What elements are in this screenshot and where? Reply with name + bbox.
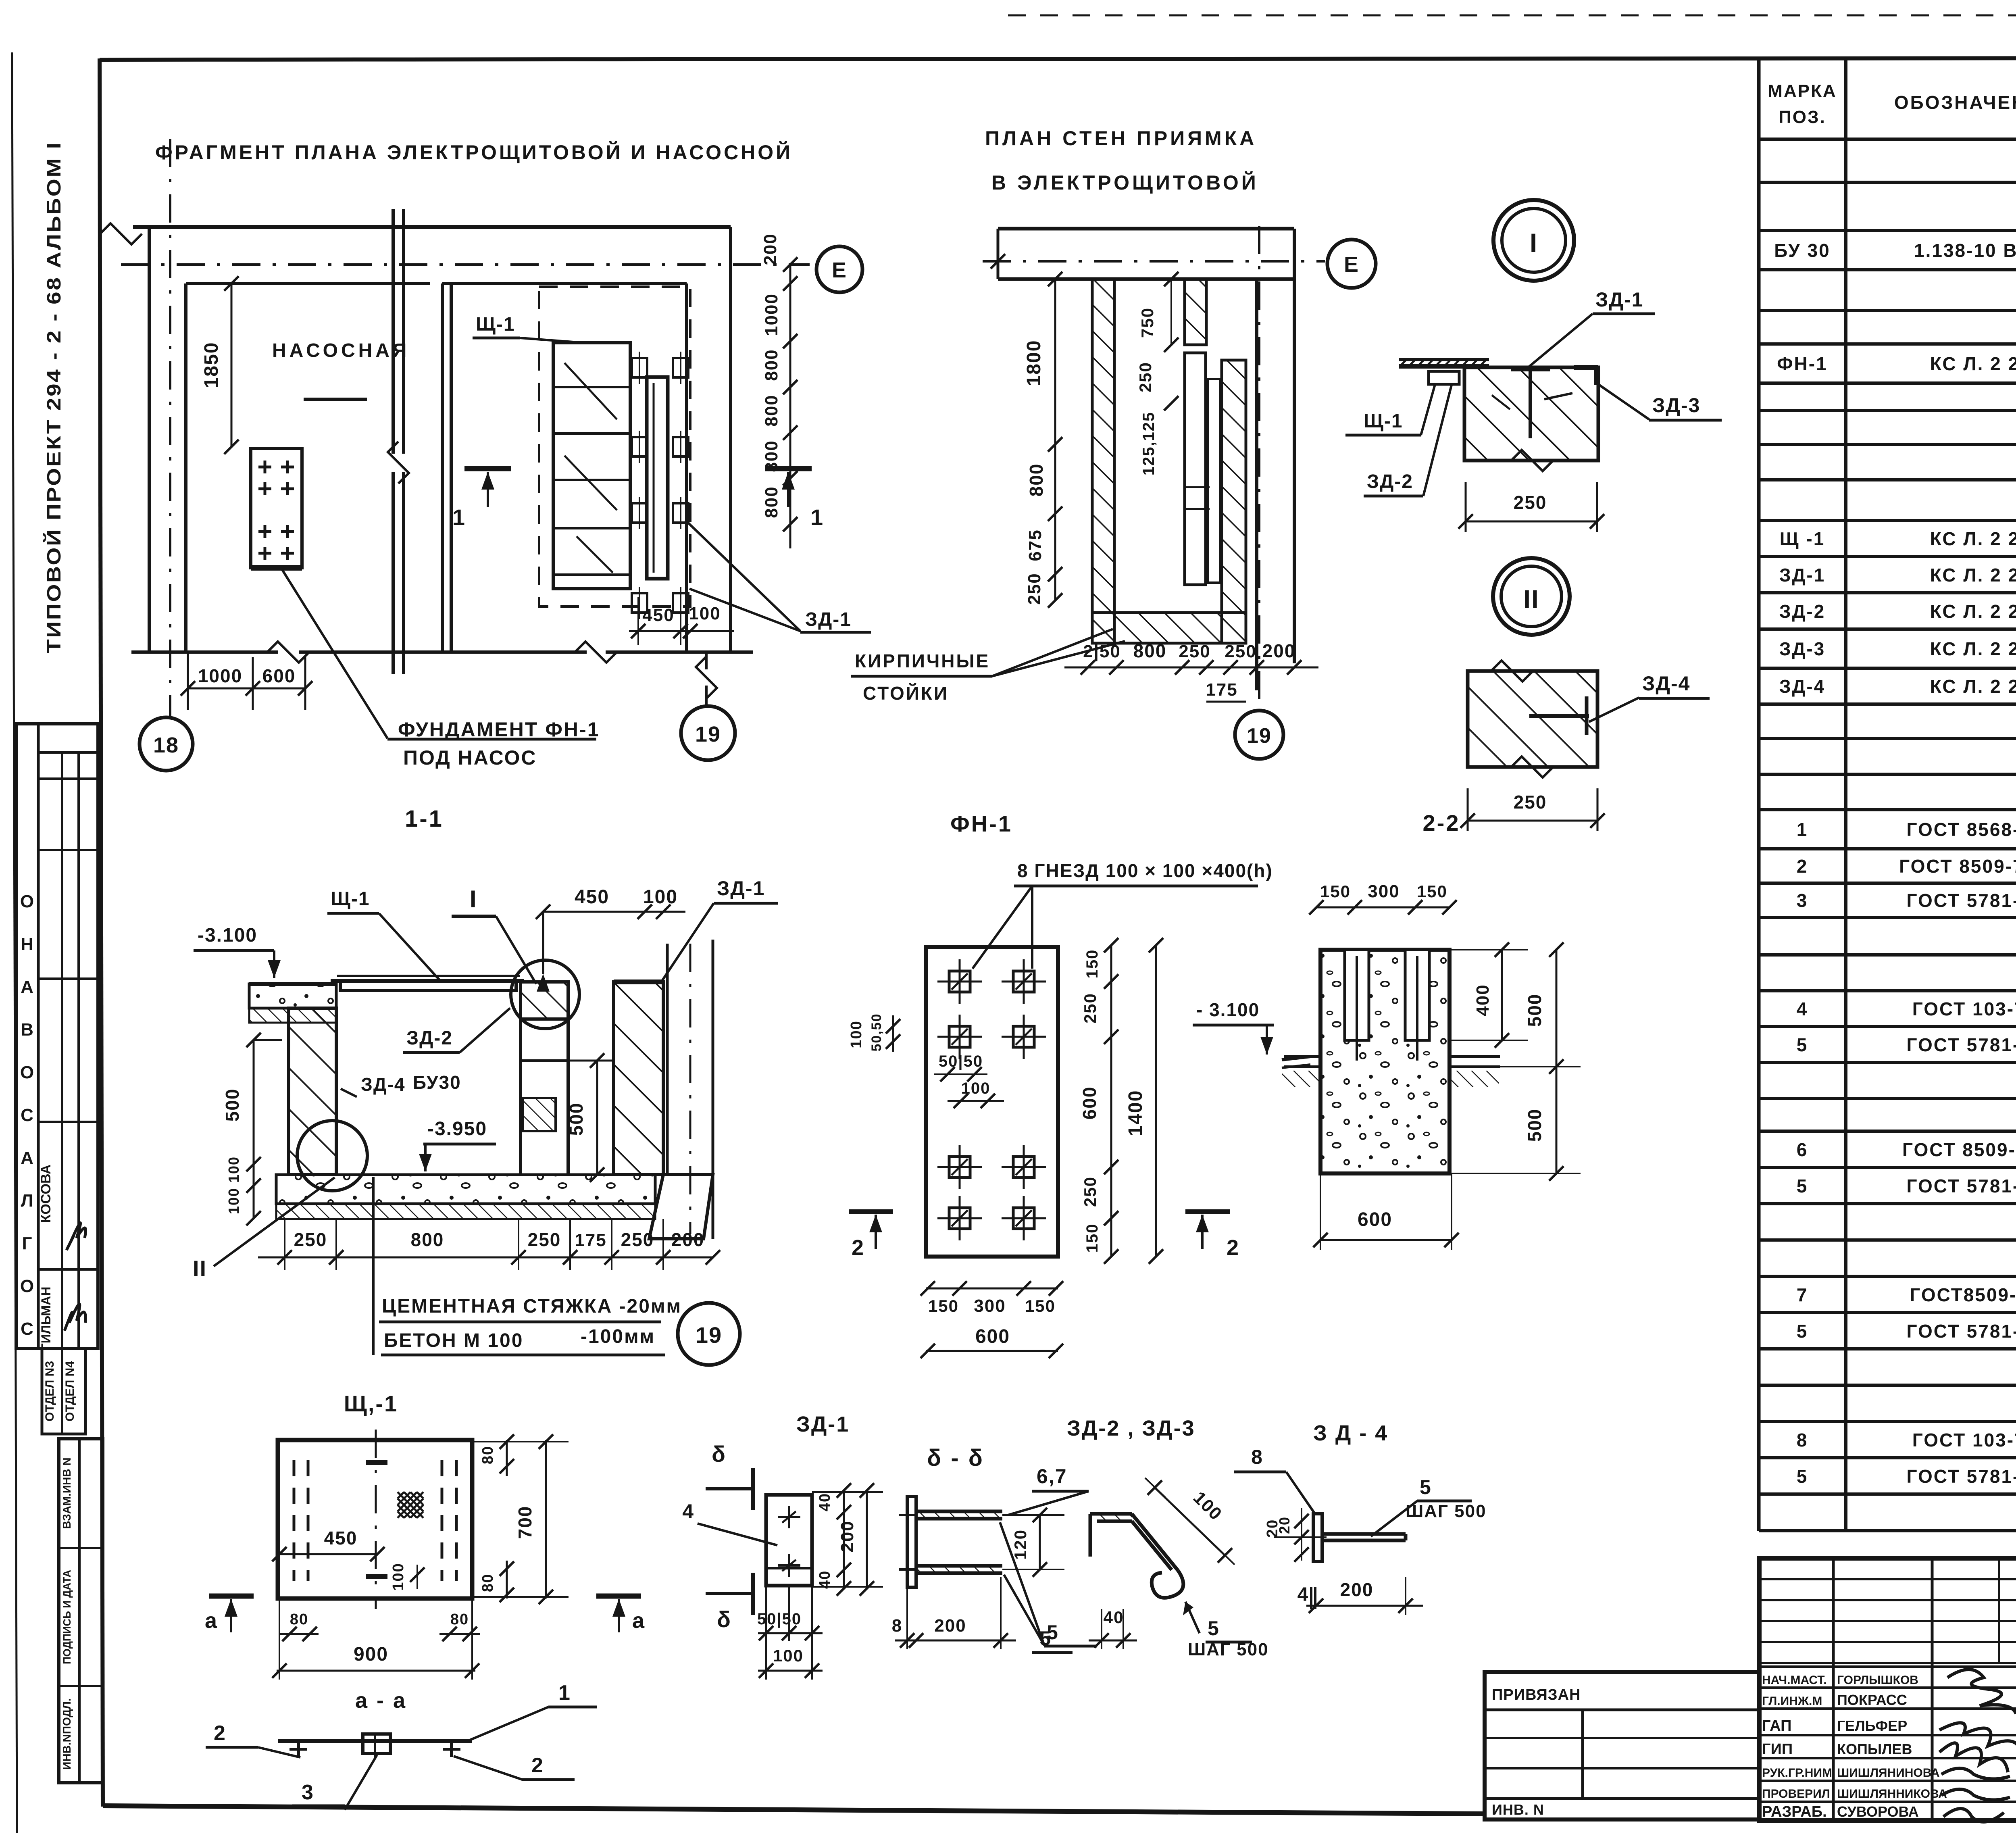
svg-text:ЗД-1: ЗД-1: [796, 1412, 850, 1436]
sch-1 dashed slots: [293, 1460, 296, 1581]
svg-text:250: 250: [528, 1229, 561, 1250]
svg-text:Щ,-1: Щ,-1: [344, 1391, 398, 1416]
zd-4 rod: [1322, 1532, 1406, 1536]
svg-text:БЕТОН М 100: БЕТОН М 100: [384, 1330, 523, 1351]
svg-text:200: 200: [934, 1616, 966, 1636]
title block left small grid: [1759, 1578, 2016, 1580]
2-2 slots: [1345, 950, 1369, 1040]
svg-text:δ: δ: [712, 1441, 726, 1467]
svg-text:500: 500: [566, 1102, 587, 1136]
dim 1000 600: [187, 652, 189, 710]
title block signature rows: [1759, 1665, 2016, 1668]
priyamok right wall vertical: [1255, 279, 1258, 690]
svg-text:3: 3: [1797, 890, 1808, 911]
svg-text:8 ГНЕЗД 100 × 100 ×400(h): 8 ГНЕЗД 100 × 100 ×400(h): [1017, 860, 1273, 881]
svg-text:700: 700: [514, 1506, 535, 1539]
svg-text:600: 600: [1358, 1209, 1392, 1230]
grid bubble 19 section: [678, 1303, 740, 1365]
svg-text:100: 100: [643, 886, 678, 908]
plan: axis 19 leader down to bubble: [705, 653, 708, 669]
zd-2-3 strap diagonal: [1132, 1514, 1178, 1571]
priyamok bottom dim chain: [1064, 667, 1318, 669]
1-1 middle block in circle: [511, 960, 579, 1029]
svg-text:5: 5: [1797, 1321, 1808, 1342]
svg-text:19: 19: [1247, 724, 1272, 748]
svg-text:8: 8: [1251, 1446, 1263, 1468]
svg-text:175: 175: [1206, 680, 1237, 700]
svg-text:ШАГ 500: ШАГ 500: [1406, 1501, 1487, 1521]
detail I dim 250: [1465, 482, 1467, 532]
detail I floor plate: [1399, 358, 1489, 361]
svg-text:20: 20: [1276, 1516, 1293, 1534]
signatures scribbles: [1947, 1669, 2016, 1714]
svg-text:150: 150: [1417, 882, 1447, 901]
svg-text:7: 7: [1797, 1284, 1808, 1305]
plan: right exterior wall: [685, 283, 688, 652]
svg-text:1: 1: [1797, 819, 1808, 840]
svg-text:ЗД-4: ЗД-4: [361, 1074, 406, 1095]
svg-text:800: 800: [762, 394, 781, 426]
svg-text:800: 800: [762, 440, 781, 472]
svg-text:5: 5: [1797, 1175, 1808, 1196]
svg-text:О: О: [20, 1276, 34, 1296]
svg-text:2: 2: [531, 1754, 544, 1777]
svg-text:1-1: 1-1: [405, 806, 444, 832]
svg-text:З Д - 4: З Д - 4: [1313, 1421, 1388, 1445]
svg-text:ГОСТ 103-76: ГОСТ 103-76: [1912, 998, 2016, 1019]
sch-1 center dash-dot: [375, 1430, 377, 1609]
svg-text:600: 600: [1079, 1086, 1100, 1120]
section mark 1 left: [464, 466, 511, 471]
svg-text:ПРОВЕРИЛ: ПРОВЕРИЛ: [1762, 1787, 1830, 1801]
fn-1 bottom dims: [926, 1288, 1058, 1290]
b-b left stems: [899, 1514, 916, 1516]
svg-text:900: 900: [354, 1644, 388, 1665]
svg-text:-3.100: -3.100: [198, 925, 257, 946]
svg-text:40: 40: [1104, 1608, 1124, 1627]
svg-text:a - a: a - a: [355, 1688, 407, 1713]
svg-text:100: 100: [689, 604, 721, 623]
svg-text:a: a: [205, 1609, 218, 1633]
1-1 dash axis right: [689, 944, 691, 1234]
svg-text:ЗД-4: ЗД-4: [1642, 672, 1690, 695]
svg-text:ГОРЛЫШКОВ: ГОРЛЫШКОВ: [1837, 1674, 1918, 1687]
svg-text:200: 200: [1262, 640, 1296, 661]
page frame bottom border: [103, 1806, 1485, 1814]
2-2 dim 400: [1501, 950, 1503, 1040]
svg-text:150: 150: [1083, 1223, 1101, 1253]
svg-text:250: 250: [1225, 642, 1256, 661]
svg-text:КОСОВА: КОСОВА: [38, 1165, 54, 1223]
svg-text:250: 250: [1025, 573, 1044, 604]
svg-text:1: 1: [558, 1681, 571, 1705]
svg-text:ГОСТ 8568-77: ГОСТ 8568-77: [1906, 819, 2016, 840]
plan: top exterior wall line: [133, 225, 731, 229]
zd-4 plate: [1313, 1514, 1322, 1561]
svg-text:175: 175: [575, 1230, 606, 1250]
svg-text:600: 600: [975, 1326, 1010, 1347]
1-1 note leader vertical: [372, 1177, 375, 1355]
svg-text:I: I: [1530, 228, 1538, 258]
svg-text:150: 150: [1320, 882, 1351, 901]
svg-text:Л: Л: [21, 1191, 33, 1211]
inv podpis boxes: [59, 1439, 103, 1783]
svg-text:ТИПОВОЙ ПРОЕКТ 294 - 2 - 68: ТИПОВОЙ ПРОЕКТ 294 - 2 - 68 АЛЬБОМ I: [43, 141, 65, 653]
svg-text:2-2: 2-2: [1423, 810, 1460, 836]
svg-text:С: С: [21, 1105, 33, 1125]
detail I corner angle: [1574, 365, 1598, 370]
svg-text:450: 450: [324, 1528, 358, 1548]
svg-text:200: 200: [671, 1229, 705, 1250]
svg-text:50|50: 50|50: [939, 1052, 983, 1070]
svg-text:ИНВ.NПОДЛ.: ИНВ.NПОДЛ.: [60, 1698, 73, 1769]
svg-text:250: 250: [1514, 492, 1547, 513]
svg-text:РАЗРАБ.: РАЗРАБ.: [1762, 1803, 1827, 1820]
1-1 dim 500 right: [596, 1061, 598, 1175]
svg-text:8: 8: [892, 1616, 902, 1636]
svg-text:ПРИВЯЗАН: ПРИВЯЗАН: [1492, 1686, 1581, 1703]
plan: middle column double line: [392, 209, 395, 454]
leader to foundation text: [282, 570, 387, 738]
svg-text:ГОСТ8509-72: ГОСТ8509-72: [1910, 1284, 2016, 1305]
svg-text:300: 300: [974, 1296, 1006, 1316]
svg-text:250: 250: [1136, 362, 1155, 392]
page frame top border: [100, 58, 1759, 60]
svg-text:500: 500: [222, 1088, 243, 1122]
svg-text:5: 5: [1420, 1476, 1432, 1498]
svg-text:40: 40: [816, 1493, 833, 1511]
sch-1 center tick plates: [366, 1460, 387, 1465]
zd-2-3 bracket: [1089, 1514, 1092, 1557]
svg-text:ЗД-3: ЗД-3: [1652, 394, 1700, 417]
svg-text:5: 5: [1208, 1617, 1220, 1640]
svg-text:ЗД-1: ЗД-1: [717, 877, 765, 900]
priyamok bottom hatched wall: [1092, 613, 1246, 643]
svg-text:ФРАГМЕНТ ПЛАНА ЭЛЕКТРОЩИТОВО: ФРАГМЕНТ ПЛАНА ЭЛЕКТРОЩИТОВОЙ И НАСОСНОЙ: [155, 141, 793, 164]
otdel boxes: [42, 1348, 85, 1434]
zd-2-3 hook curl: [1152, 1571, 1183, 1598]
svg-text:250: 250: [1081, 993, 1100, 1023]
svg-text:КИРПИЧНЫЕ: КИРПИЧНЫЕ: [855, 650, 990, 671]
svg-text:ПОЗ.: ПОЗ.: [1779, 107, 1826, 127]
soglasovano box: [16, 724, 98, 1348]
svg-text:ГОСТ 5781-75: ГОСТ 5781-75: [1906, 890, 2016, 911]
svg-text:2: 2: [852, 1236, 864, 1260]
svg-text:300: 300: [1368, 882, 1400, 901]
plan: bottom wall line with breaks: [131, 650, 278, 654]
svg-text:КС Л. 2 2: КС Л. 2 2: [1930, 601, 2016, 622]
svg-text:18: 18: [153, 733, 179, 757]
svg-text:1400: 1400: [1125, 1090, 1146, 1136]
svg-text:ЗД-1: ЗД-1: [1595, 288, 1643, 311]
svg-text:200: 200: [760, 233, 780, 265]
svg-text:800: 800: [1026, 463, 1047, 497]
sch-1 plate rect: [278, 1440, 472, 1598]
svg-text:ГИЛЬМАН: ГИЛЬМАН: [39, 1287, 53, 1351]
svg-text:ЗД-2 , ЗД-3: ЗД-2 , ЗД-3: [1067, 1416, 1195, 1440]
svg-text:2: 2: [1797, 856, 1808, 877]
svg-text:1: 1: [452, 504, 466, 530]
svg-text:ЦЕМЕНТНАЯ СТЯЖКА -20мм: ЦЕМЕНТНАЯ СТЯЖКА -20мм: [382, 1296, 682, 1317]
svg-text:5: 5: [1797, 1466, 1808, 1487]
svg-text:Щ-1: Щ-1: [476, 314, 515, 335]
svg-text:5: 5: [1797, 1034, 1808, 1055]
panel cabinet rect: [553, 343, 630, 589]
svg-text:РУК.ГР.НИМ: РУК.ГР.НИМ: [1762, 1766, 1832, 1780]
svg-text:3: 3: [302, 1781, 314, 1804]
svg-text:ГИП: ГИП: [1762, 1741, 1793, 1758]
fn-1 plate: [926, 947, 1058, 1257]
svg-text:500: 500: [1524, 994, 1545, 1027]
svg-text:150: 150: [1025, 1296, 1056, 1315]
svg-text:6,7: 6,7: [1037, 1465, 1067, 1488]
svg-text:ЗД-1: ЗД-1: [805, 609, 852, 630]
detail II bubble: [1493, 558, 1570, 635]
right dim chain of plan: [789, 265, 791, 548]
svg-text:ГЛ.ИНЖ.М: ГЛ.ИНЖ.М: [1762, 1694, 1822, 1708]
grid bubble 18: [140, 717, 193, 771]
svg-text:-3.950: -3.950: [427, 1118, 487, 1140]
2-2 dims 500 500: [1556, 950, 1558, 1173]
svg-text:100: 100: [390, 1563, 407, 1590]
svg-text:ГОСТ 5781-75: ГОСТ 5781-75: [1906, 1175, 2016, 1196]
svg-text:120: 120: [1011, 1529, 1030, 1560]
svg-text:6: 6: [1797, 1139, 1808, 1160]
priyamok top wall: [998, 227, 1294, 231]
svg-text:19: 19: [696, 1322, 722, 1348]
priyamok left hatched wall: [1092, 279, 1114, 643]
svg-text:ГЕЛЬФЕР: ГЕЛЬФЕР: [1837, 1717, 1907, 1734]
1-1 right outer lines: [666, 944, 669, 1175]
1-1 left wall hatched: [289, 1008, 336, 1175]
page outer thin line left: [12, 52, 17, 1833]
priyamok middle hatched strip: [1185, 279, 1206, 345]
svg-text:С: С: [21, 1319, 33, 1339]
sch-1 dim 450: [279, 1553, 377, 1555]
plan: inner wall between rooms: [441, 283, 444, 652]
detail II anchor: [1529, 714, 1589, 718]
svg-text:ПЛАН СТЕН ПРИЯМКА: ПЛАН СТЕН ПРИЯМКА: [985, 127, 1257, 150]
svg-text:100: 100: [773, 1646, 804, 1665]
svg-text:50|50: 50|50: [757, 1610, 802, 1628]
svg-text:ОТДЕЛ N3: ОТДЕЛ N3: [43, 1361, 56, 1421]
sch-1 section a marks: [209, 1594, 254, 1599]
svg-text:О: О: [20, 892, 34, 911]
svg-text:800: 800: [411, 1229, 444, 1250]
svg-text:E: E: [832, 258, 847, 282]
svg-text:ПОКРАСС: ПОКРАСС: [1837, 1692, 1907, 1708]
svg-text:δ: δ: [717, 1607, 731, 1632]
svg-text:ГОСТ 5781-75: ГОСТ 5781-75: [1906, 1466, 2016, 1487]
svg-text:ГОСТ 8509-72 *: ГОСТ 8509-72 *: [1899, 856, 2016, 877]
svg-text:150: 150: [928, 1296, 959, 1315]
svg-text:80: 80: [479, 1573, 496, 1592]
svg-text:600: 600: [262, 665, 296, 686]
svg-text:А: А: [21, 1148, 33, 1168]
svg-text:КОПЫЛЕВ: КОПЫЛЕВ: [1837, 1741, 1912, 1757]
svg-text:ГОСТ 5781-75: ГОСТ 5781-75: [1906, 1034, 2016, 1055]
svg-text:ОТДЕЛ N4: ОТДЕЛ N4: [63, 1361, 77, 1421]
svg-text:ОБОЗНАЧЕНИЕ: ОБОЗНАЧЕНИЕ: [1894, 92, 2016, 113]
svg-text:675: 675: [1025, 529, 1045, 561]
svg-text:5: 5: [1039, 1627, 1052, 1650]
svg-text:ШИШЛЯНИНОВА: ШИШЛЯНИНОВА: [1837, 1766, 1940, 1780]
svg-text:ФН-1: ФН-1: [950, 811, 1012, 836]
sch-1 crosshatch patch: [398, 1492, 423, 1518]
svg-text:1: 1: [810, 504, 824, 530]
svg-text:E: E: [1344, 252, 1359, 277]
svg-text:ИНВ. N: ИНВ. N: [1492, 1801, 1544, 1818]
title block outer: [1759, 1558, 2016, 1821]
fn-1 section marks 2: [849, 1209, 893, 1214]
svg-text:Щ -1: Щ -1: [1780, 528, 1825, 549]
plan: top wall inner lines: [186, 282, 430, 285]
svg-text:-100мм: -100мм: [581, 1326, 655, 1347]
svg-text:80: 80: [450, 1611, 469, 1628]
plan: axis 18 vertical: [169, 139, 171, 717]
svg-text:БУ 30: БУ 30: [1774, 240, 1830, 261]
section mark 1 right: [765, 466, 812, 471]
1-1 right footing trapezoid: [649, 1175, 713, 1239]
svg-text:250: 250: [1081, 1176, 1100, 1207]
svg-text:В: В: [21, 1020, 33, 1040]
svg-text:1850: 1850: [201, 342, 222, 388]
priyamok left dim chain: [1054, 279, 1056, 600]
svg-text:Щ-1: Щ-1: [1364, 411, 1403, 432]
2-2 bottom dim 600: [1320, 1239, 1452, 1241]
svg-text:ГОСТ 103-76: ГОСТ 103-76: [1912, 1430, 2016, 1451]
svg-text:1000: 1000: [762, 293, 781, 336]
svg-text:I: I: [470, 886, 477, 913]
panel diagonal strokes: [564, 363, 617, 419]
svg-text:100: 100: [225, 1156, 242, 1183]
svg-text:II: II: [1523, 585, 1539, 614]
svg-text:А: А: [21, 977, 33, 997]
2-2 foundation block: [1320, 950, 1450, 1173]
svg-text:ФН-1: ФН-1: [1777, 353, 1827, 374]
svg-text:800: 800: [762, 486, 781, 518]
detail I bubble: [1493, 200, 1574, 281]
priyamok right hatched band: [1222, 360, 1246, 643]
priyamok axis E: [983, 260, 1325, 263]
svg-text:ЗД-2: ЗД-2: [1779, 601, 1826, 622]
svg-text:ГАП: ГАП: [1762, 1717, 1791, 1734]
svg-text:Н: Н: [21, 934, 33, 954]
svg-text:400: 400: [1473, 984, 1493, 1016]
svg-text:ЗД-2: ЗД-2: [1367, 471, 1413, 492]
svg-text:50,50: 50,50: [869, 1013, 884, 1051]
svg-text:2: 2: [1227, 1236, 1239, 1260]
priyamok axis 19 vertical: [1258, 226, 1260, 710]
svg-text:ПОДПИСЬ И ДАТА: ПОДПИСЬ И ДАТА: [61, 1570, 73, 1664]
svg-text:СТОЙКИ: СТОЙКИ: [863, 683, 949, 704]
svg-text:4: 4: [1797, 998, 1808, 1019]
svg-text:НАСОСНАЯ: НАСОСНАЯ: [272, 340, 410, 361]
sch-1 bottom dims 80 900 80: [279, 1633, 319, 1635]
sch-1 dims 80 700 80 right: [506, 1440, 508, 1476]
svg-text:80: 80: [290, 1611, 308, 1628]
svg-text:О: О: [20, 1063, 34, 1082]
specification table grid: [1757, 58, 1761, 1531]
plan: axis E dash-dot: [121, 263, 810, 266]
svg-text:100: 100: [848, 1020, 865, 1048]
svg-text:150: 150: [1083, 949, 1101, 979]
zd-1 right dims 40 200 40: [843, 1490, 845, 1588]
detail I anchor tee: [1511, 367, 1550, 371]
1-1 right wall hatched: [614, 982, 663, 1175]
svg-text:500: 500: [1524, 1109, 1545, 1142]
dim 1850 vertical: [231, 283, 233, 447]
svg-text:250: 250: [1514, 792, 1547, 813]
svg-text:19: 19: [695, 722, 721, 746]
svg-text:4: 4: [682, 1500, 694, 1523]
svg-text:ЗД-3: ЗД-3: [1779, 638, 1826, 659]
fn-1 right inner chain: [1110, 945, 1112, 1257]
svg-text:КС Л. 2 2: КС Л. 2 2: [1930, 528, 2016, 549]
svg-text:ШИШЛЯННИКОВА: ШИШЛЯННИКОВА: [1837, 1787, 1947, 1801]
svg-text:Щ-1: Щ-1: [331, 888, 370, 910]
svg-text:ВЗАМ.ИНВ N: ВЗАМ.ИНВ N: [60, 1457, 73, 1529]
detail II dim 250: [1467, 788, 1469, 831]
1-1 bottom slab: [276, 1175, 655, 1204]
svg-text:КС Л. 2 2: КС Л. 2 2: [1930, 638, 2016, 659]
foundation FN-1 rect in plan: [251, 448, 302, 568]
a-a section drawing: [278, 1739, 472, 1743]
svg-text:1000: 1000: [198, 665, 242, 686]
svg-text:НАЧ.МАСТ.: НАЧ.МАСТ.: [1762, 1674, 1827, 1687]
1-1 left dim chain 500 100 100: [253, 1040, 255, 1218]
detail I concrete block: [1464, 367, 1598, 461]
privyazan table: [1485, 1672, 1759, 1819]
priyamok panel strips: [1185, 353, 1206, 585]
svg-text:800: 800: [1133, 640, 1167, 661]
grid bubble 19 priyamok: [1235, 711, 1283, 759]
svg-text:Г: Г: [22, 1234, 32, 1253]
plan: left wall: [148, 227, 151, 652]
1-1 detail circle II: [297, 1121, 367, 1191]
b-b bottom arm: [916, 1564, 1002, 1568]
svg-text:II: II: [193, 1256, 207, 1281]
svg-text:ЗД-1: ЗД-1: [1779, 565, 1826, 586]
zd-1 plate: [766, 1495, 812, 1586]
svg-text:δ - δ: δ - δ: [927, 1445, 984, 1471]
svg-text:250: 250: [294, 1229, 327, 1250]
svg-text:250: 250: [1179, 642, 1210, 661]
svg-text:ЗД-4: ЗД-4: [1779, 676, 1826, 697]
svg-text:2: 2: [214, 1721, 226, 1745]
svg-text:В ЭЛЕКТРОЩИТОВОЙ: В ЭЛЕКТРОЩИТОВОЙ: [991, 171, 1259, 194]
1-1 left floor slab: [249, 984, 336, 1008]
svg-text:КС Л. 2 2: КС Л. 2 2: [1930, 565, 2016, 586]
svg-text:1.138-10 В.1: 1.138-10 В.1: [1914, 240, 2016, 261]
svg-text:8: 8: [1797, 1430, 1808, 1451]
svg-text:ФУНДАМЕНТ ФН-1: ФУНДАМЕНТ ФН-1: [398, 718, 600, 741]
panel profile bar: [647, 377, 668, 579]
svg-text:4: 4: [1297, 1584, 1309, 1605]
panel dashed boundary: [539, 287, 690, 606]
page frame left border: [100, 58, 103, 1807]
1-1 pit cover tray: [340, 981, 516, 990]
zd-2-3 dim 100 diagonal: [1155, 1488, 1225, 1555]
svg-text:ПОД НАСОС: ПОД НАСОС: [403, 746, 537, 769]
svg-text:100: 100: [225, 1188, 242, 1214]
fn-1 outer chain 1400: [1155, 945, 1157, 1257]
svg-text:КС Л. 2 2: КС Л. 2 2: [1930, 353, 2016, 374]
svg-text:a: a: [632, 1609, 645, 1633]
b-b vertical plate: [907, 1496, 916, 1587]
grid bubble E: [816, 246, 862, 292]
embedded clips ZD-1: [632, 358, 647, 377]
